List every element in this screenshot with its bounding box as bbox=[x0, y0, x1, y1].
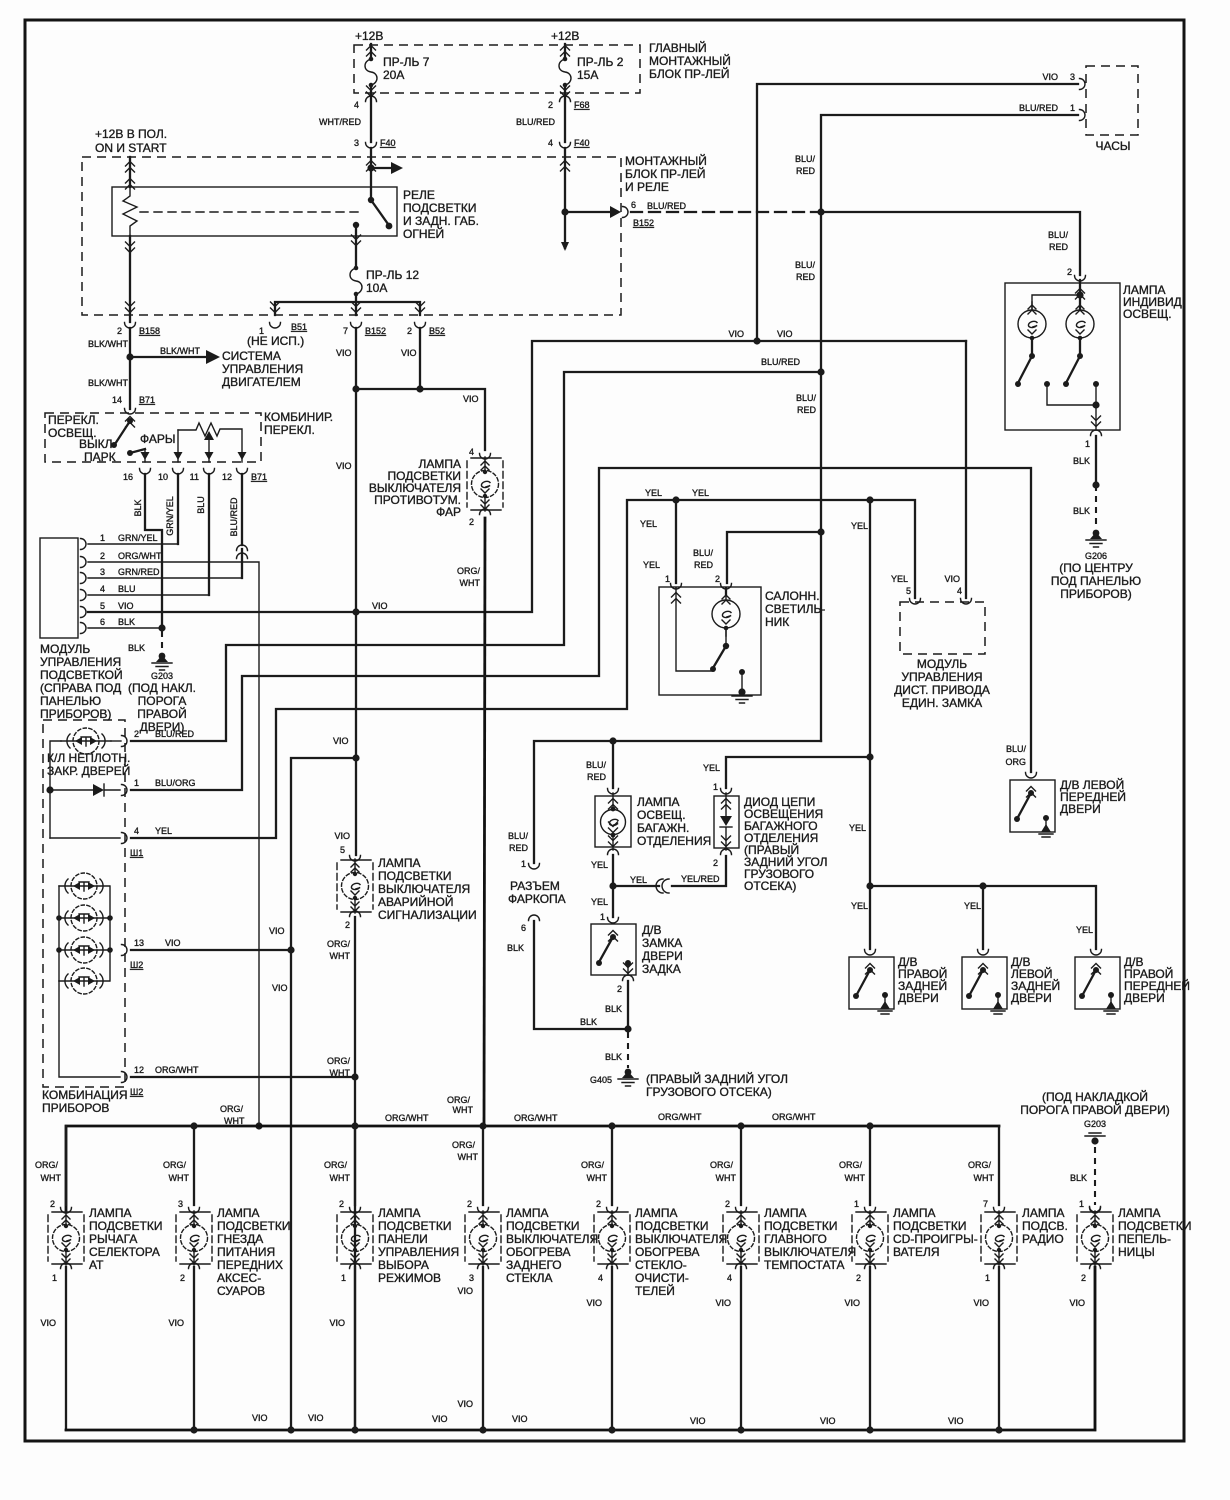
svg-text:ПЕРЕКЛ.: ПЕРЕКЛ. bbox=[264, 423, 315, 437]
svg-text:2: 2 bbox=[1067, 267, 1072, 277]
svg-text:3: 3 bbox=[100, 567, 105, 577]
svg-text:1: 1 bbox=[985, 1273, 990, 1283]
svg-text:ОБОГРЕВА: ОБОГРЕВА bbox=[506, 1245, 571, 1259]
svg-text:VIO: VIO bbox=[457, 1399, 473, 1409]
svg-text:WHT: WHT bbox=[330, 1068, 351, 1078]
svg-text:1: 1 bbox=[521, 859, 526, 869]
cluster pin 13 VIO bbox=[122, 945, 128, 956]
svg-text:1: 1 bbox=[134, 778, 139, 788]
svg-text:BLU/: BLU/ bbox=[796, 393, 817, 403]
svg-text:ЛАМПА: ЛАМПА bbox=[1118, 1206, 1161, 1220]
svg-text:2: 2 bbox=[117, 326, 122, 336]
trunk lamp box bbox=[595, 796, 631, 847]
svg-text:ПР-ЛЬ 7: ПР-ЛЬ 7 bbox=[383, 55, 430, 69]
svg-text:И ЗАДН. ГАБ.: И ЗАДН. ГАБ. bbox=[403, 214, 479, 228]
svg-text:ОТСЕКА): ОТСЕКА) bbox=[744, 879, 796, 893]
svg-text:АТ: АТ bbox=[89, 1258, 104, 1272]
svg-text:YEL: YEL bbox=[1076, 925, 1093, 935]
svg-text:BLU/: BLU/ bbox=[795, 260, 816, 270]
svg-text:WHT: WHT bbox=[458, 1152, 479, 1162]
svg-text:ЛАМПА: ЛАМПА bbox=[764, 1206, 807, 1220]
svg-text:1: 1 bbox=[854, 1199, 859, 1209]
svg-text:ОСВЕЩ.: ОСВЕЩ. bbox=[637, 808, 686, 822]
svg-text:САЛОНН.: САЛОНН. bbox=[765, 589, 820, 603]
pin 7 B152 bbox=[351, 323, 362, 329]
YEL door bus bbox=[866, 882, 873, 889]
svg-text:4: 4 bbox=[354, 100, 359, 110]
cluster pin 4 YEL bbox=[50, 837, 120, 839]
svg-text:КОМБИНАЦИЯ: КОМБИНАЦИЯ bbox=[42, 1088, 128, 1102]
svg-text:5: 5 bbox=[100, 601, 105, 611]
individual lamp bulb 2 switch bbox=[1079, 338, 1081, 356]
svg-text:BLU/RED: BLU/RED bbox=[761, 357, 801, 367]
svg-text:11: 11 bbox=[190, 472, 199, 482]
svg-text:ЗАДКА: ЗАДКА bbox=[642, 962, 681, 976]
svg-text:1: 1 bbox=[1085, 439, 1090, 449]
svg-text:ВЫКЛЮЧАТЕЛЯ: ВЫКЛЮЧАТЕЛЯ bbox=[378, 882, 470, 896]
svg-text:ВЫКЛЮЧАТЕЛЯ: ВЫКЛЮЧАТЕЛЯ bbox=[506, 1232, 598, 1246]
svg-text:ПРАВОЙ: ПРАВОЙ bbox=[137, 706, 186, 721]
svg-text:ORG/WHT: ORG/WHT bbox=[658, 1112, 702, 1122]
module pin 2 ORG/WHT bbox=[81, 557, 87, 568]
svg-text:B52: B52 bbox=[429, 326, 445, 336]
svg-text:BLU/RED: BLU/RED bbox=[155, 729, 195, 739]
svg-text:ПОДСВЕТКИ: ПОДСВЕТКИ bbox=[378, 869, 451, 883]
svg-text:УПРАВЛЕНИЯ: УПРАВЛЕНИЯ bbox=[378, 1245, 459, 1259]
wire YEL diode pin1 branch bbox=[726, 757, 870, 788]
cluster pin 1 BLU/ORG bbox=[122, 785, 128, 796]
svg-text:ЛАМПА: ЛАМПА bbox=[89, 1206, 132, 1220]
wire VIO down to lock module pin 4 bbox=[965, 341, 967, 598]
svg-text:6: 6 bbox=[521, 923, 526, 933]
svg-text:ВЫКЛЮЧАТЕЛЯ: ВЫКЛЮЧАТЕЛЯ bbox=[635, 1232, 727, 1246]
rear window defogger switch illumination lamp bbox=[482, 1126, 484, 1205]
wire BLK dashed to ground bbox=[161, 631, 163, 656]
svg-text:ПОДСВЕТКИ: ПОДСВЕТКИ bbox=[403, 201, 476, 215]
wire BLU/RED trunk lamp drop bbox=[612, 741, 614, 788]
left rear door switch bbox=[978, 950, 989, 956]
svg-text:VIO: VIO bbox=[333, 736, 349, 746]
svg-text:VIO: VIO bbox=[715, 1298, 731, 1308]
svg-text:WHT: WHT bbox=[460, 578, 481, 588]
pin 11 B71 bbox=[204, 469, 215, 475]
svg-text:YEL: YEL bbox=[155, 826, 172, 836]
svg-text:2: 2 bbox=[1081, 1273, 1086, 1283]
wire BLU/RED trunk feeder y741 bbox=[534, 741, 821, 863]
svg-text:ПОДСВЕТКОЙ: ПОДСВЕТКОЙ bbox=[40, 667, 123, 682]
svg-text:ORG/WHT: ORG/WHT bbox=[772, 1112, 816, 1122]
fuse ПР-ЛЬ 7 20А bbox=[365, 57, 377, 88]
svg-text:VIO: VIO bbox=[432, 1414, 448, 1424]
svg-text:7: 7 bbox=[983, 1199, 988, 1209]
svg-text:2: 2 bbox=[100, 551, 105, 561]
right rear door switch bbox=[865, 950, 876, 956]
svg-text:10: 10 bbox=[158, 472, 168, 482]
svg-text:ТЕЛЕЙ: ТЕЛЕЙ bbox=[635, 1283, 675, 1298]
svg-text:BLK: BLK bbox=[1070, 1173, 1087, 1183]
radio illumination lamp bbox=[998, 1126, 1000, 1205]
VIO junction bar to fog lamp bbox=[356, 389, 485, 450]
svg-text:ORG/: ORG/ bbox=[457, 566, 481, 576]
svg-text:РАЗЪЕМ: РАЗЪЕМ bbox=[510, 879, 560, 893]
svg-text:ПР-ЛЬ 12: ПР-ЛЬ 12 bbox=[366, 268, 419, 282]
cluster internal rail to pin 12 bbox=[59, 981, 120, 1077]
svg-text:ORG/: ORG/ bbox=[447, 1095, 471, 1105]
svg-text:ОТДЕЛЕНИЯ: ОТДЕЛЕНИЯ bbox=[637, 834, 711, 848]
svg-text:ДВЕРИ: ДВЕРИ bbox=[642, 949, 683, 963]
cluster internal diode bbox=[50, 789, 120, 791]
svg-text:YEL: YEL bbox=[643, 560, 660, 570]
svg-text:РАДИО: РАДИО bbox=[1022, 1232, 1064, 1246]
svg-text:ВЫБОРА: ВЫБОРА bbox=[378, 1258, 429, 1272]
cruise control main switch illumination lamp bbox=[740, 1126, 742, 1205]
svg-text:BLU/: BLU/ bbox=[693, 548, 714, 558]
svg-text:YEL: YEL bbox=[692, 488, 709, 498]
selector lever illumination lamp bbox=[65, 1126, 67, 1205]
svg-text:BLU/: BLU/ bbox=[795, 154, 816, 164]
svg-text:VIO: VIO bbox=[308, 1413, 324, 1423]
svg-text:WHT: WHT bbox=[330, 951, 351, 961]
svg-text:ON И START: ON И START bbox=[95, 141, 167, 155]
svg-text:ПРИБОРОВ): ПРИБОРОВ) bbox=[1060, 587, 1131, 601]
svg-text:WHT: WHT bbox=[845, 1173, 866, 1183]
svg-text:YEL: YEL bbox=[849, 823, 866, 833]
wire ORG/WHT hazard lamp down bbox=[354, 917, 356, 1430]
svg-text:G206: G206 bbox=[1085, 551, 1107, 561]
svg-text:VIO: VIO bbox=[463, 394, 479, 404]
svg-text:4: 4 bbox=[598, 1273, 603, 1283]
svg-text:1: 1 bbox=[341, 1273, 346, 1283]
svg-text:ПАНЕЛИ: ПАНЕЛИ bbox=[378, 1232, 428, 1246]
diode box bbox=[714, 796, 739, 848]
wire BLK dashed to G206 bbox=[1095, 485, 1097, 528]
svg-text:BLU/: BLU/ bbox=[586, 760, 607, 770]
VIO bottom bus bbox=[66, 1267, 1095, 1430]
pin 10 B71 bbox=[173, 469, 184, 475]
svg-text:VIO: VIO bbox=[944, 574, 960, 584]
svg-text:ORG/WHT: ORG/WHT bbox=[385, 1113, 429, 1123]
svg-text:VIO: VIO bbox=[1069, 1298, 1085, 1308]
pin 6 B152 BLU/RED output arrow bbox=[565, 211, 612, 213]
svg-text:ЗАКР. ДВЕРЕЙ: ЗАКР. ДВЕРЕЙ bbox=[47, 763, 130, 778]
svg-text:YEL: YEL bbox=[964, 901, 981, 911]
svg-text:BLU/ORG: BLU/ORG bbox=[155, 778, 196, 788]
svg-text:YEL: YEL bbox=[851, 901, 868, 911]
svg-text:YEL: YEL bbox=[703, 763, 720, 773]
svg-text:СТЕКЛО-: СТЕКЛО- bbox=[635, 1258, 687, 1272]
svg-text:(ПРАВЫЙ ЗАДНИЙ УГОЛ: (ПРАВЫЙ ЗАДНИЙ УГОЛ bbox=[646, 1071, 788, 1086]
ashtray illumination lamp bbox=[1094, 1147, 1096, 1205]
svg-text:7: 7 bbox=[343, 326, 348, 336]
dome lamp pin 2 bbox=[721, 584, 732, 590]
svg-text:BLU/RED: BLU/RED bbox=[229, 497, 239, 537]
wire VIO continues down x356 bbox=[355, 389, 357, 855]
tailgate lock switch box bbox=[591, 924, 636, 975]
dome lamp bulb bbox=[725, 588, 727, 594]
svg-text:2: 2 bbox=[345, 920, 350, 930]
svg-text:ORG/: ORG/ bbox=[968, 1160, 992, 1170]
svg-text:ORG/: ORG/ bbox=[220, 1104, 244, 1114]
svg-text:ОСВЕЩ.: ОСВЕЩ. bbox=[1123, 307, 1172, 321]
svg-text:YEL: YEL bbox=[591, 860, 608, 870]
CD player illumination lamp bbox=[869, 1126, 871, 1205]
svg-text:ORG/: ORG/ bbox=[327, 939, 351, 949]
individual lamp bulb 1 bbox=[1018, 302, 1046, 346]
lock module pin 4 bbox=[961, 599, 972, 605]
svg-text:НИЦЫ: НИЦЫ bbox=[1118, 1245, 1155, 1259]
svg-text:B158: B158 bbox=[139, 326, 160, 336]
cluster pin 12 ORG/WHT bbox=[122, 1072, 128, 1083]
svg-text:6: 6 bbox=[100, 617, 105, 627]
wire F40 pin3 down into block bbox=[370, 148, 372, 199]
svg-text:RED: RED bbox=[1049, 242, 1069, 252]
svg-text:VIO: VIO bbox=[334, 831, 350, 841]
svg-text:ПАРК: ПАРК bbox=[84, 450, 116, 464]
svg-text:ПЕРЕДНИХ: ПЕРЕДНИХ bbox=[217, 1258, 283, 1272]
svg-text:+12В: +12В bbox=[551, 29, 579, 43]
svg-text:МОНТАЖНЫЙ: МОНТАЖНЫЙ bbox=[649, 53, 731, 68]
svg-text:3: 3 bbox=[178, 1199, 183, 1209]
svg-text:ПОД ПАНЕЛЬЮ: ПОД ПАНЕЛЬЮ bbox=[1051, 574, 1141, 588]
svg-text:VIO: VIO bbox=[820, 1416, 836, 1426]
dome lamp pin 1 bbox=[671, 584, 682, 590]
svg-text:VIO: VIO bbox=[844, 1298, 860, 1308]
svg-text:VIO: VIO bbox=[165, 938, 181, 948]
svg-text:ДВЕРИ: ДВЕРИ bbox=[1124, 991, 1165, 1005]
svg-text:B71: B71 bbox=[139, 395, 155, 405]
svg-text:ЗАМКА: ЗАМКА bbox=[642, 936, 682, 950]
svg-text:ТЕМПОСТАТА: ТЕМПОСТАТА bbox=[764, 1258, 845, 1272]
svg-text:2: 2 bbox=[407, 326, 412, 336]
svg-text:4: 4 bbox=[100, 584, 105, 594]
wire BLK/WHT left branch to engine bbox=[129, 328, 131, 409]
wire ORG/WHT module pin2 vertical bbox=[255, 1122, 262, 1129]
svg-text:И РЕЛЕ: И РЕЛЕ bbox=[625, 180, 669, 194]
pin 1 B51 not used bbox=[270, 323, 281, 329]
svg-text:BLK: BLK bbox=[133, 499, 143, 516]
svg-text:ЛАМПА: ЛАМПА bbox=[378, 1206, 421, 1220]
svg-text:ПОДСВЕТКИ: ПОДСВЕТКИ bbox=[764, 1219, 837, 1233]
svg-text:10А: 10А bbox=[366, 281, 387, 295]
wire VIO from B52 pin2 bbox=[419, 328, 421, 389]
wire BLU/ORG long run bbox=[131, 468, 1031, 790]
headlight switch bbox=[126, 417, 135, 428]
module pin 4 BLU bbox=[81, 590, 87, 601]
svg-text:13: 13 bbox=[134, 938, 144, 948]
svg-text:VIO: VIO bbox=[372, 601, 388, 611]
svg-text:2: 2 bbox=[713, 858, 718, 868]
dome light YEL junctions bbox=[672, 496, 679, 503]
svg-text:GRN/RED: GRN/RED bbox=[118, 567, 160, 577]
svg-text:WHT: WHT bbox=[169, 1173, 190, 1183]
diode symbol bbox=[720, 816, 732, 826]
wire GRN/YEL pin10 bbox=[177, 474, 179, 544]
main fuse block dashed enclosure bbox=[354, 45, 640, 93]
svg-text:(ПОД НАКЛ.: (ПОД НАКЛ. bbox=[128, 681, 196, 695]
svg-text:VIO: VIO bbox=[118, 601, 134, 611]
right front door switch bbox=[1091, 950, 1102, 956]
svg-text:WHT: WHT bbox=[330, 1173, 351, 1183]
svg-text:СТЕКЛА: СТЕКЛА bbox=[506, 1271, 552, 1285]
pin 12 B71 bbox=[237, 469, 248, 475]
svg-text:BLU/: BLU/ bbox=[1006, 744, 1027, 754]
svg-text:YEL: YEL bbox=[640, 519, 657, 529]
svg-text:ФАРКОПА: ФАРКОПА bbox=[508, 892, 566, 906]
VIO junction at clock drop bbox=[753, 337, 760, 344]
svg-text:ЗАДНЕГО: ЗАДНЕГО bbox=[506, 1258, 562, 1272]
svg-text:4: 4 bbox=[469, 447, 474, 457]
svg-text:ГЛАВНЫЙ: ГЛАВНЫЙ bbox=[649, 40, 707, 55]
svg-text:RED: RED bbox=[796, 272, 816, 282]
svg-text:2: 2 bbox=[856, 1273, 861, 1283]
svg-text:BLU/RED: BLU/RED bbox=[647, 201, 687, 211]
svg-text:ORG: ORG bbox=[1005, 757, 1026, 767]
svg-text:BLK: BLK bbox=[1073, 456, 1090, 466]
svg-text:УПРАВЛЕНИЯ: УПРАВЛЕНИЯ bbox=[901, 670, 982, 684]
switch contact park-fary bbox=[127, 450, 133, 456]
svg-text:1: 1 bbox=[600, 912, 605, 922]
wire YEL/RED to diode pin 2 bbox=[672, 856, 726, 886]
wire YEL from cluster pin 4 bbox=[131, 500, 915, 838]
trailer connector pin 6 bbox=[529, 915, 540, 921]
module pin 3 GRN/RED bbox=[81, 573, 87, 584]
svg-text:BLK/WHT: BLK/WHT bbox=[160, 346, 201, 356]
svg-text:МОДУЛЬ: МОДУЛЬ bbox=[917, 657, 967, 671]
svg-text:ПЕПЕЛЬ-: ПЕПЕЛЬ- bbox=[1118, 1232, 1171, 1246]
svg-text:КОМБИНИР.: КОМБИНИР. bbox=[264, 410, 333, 424]
individual lamp fixed contacts bbox=[1044, 381, 1050, 387]
svg-text:B71: B71 bbox=[251, 472, 267, 482]
hazard switch illumination lamp bbox=[337, 856, 373, 917]
svg-text:BLK: BLK bbox=[605, 1052, 622, 1062]
svg-text:МОДУЛЬ: МОДУЛЬ bbox=[40, 642, 90, 656]
svg-text:BLK: BLK bbox=[605, 1004, 622, 1014]
svg-text:3: 3 bbox=[354, 138, 359, 148]
svg-text:ГРУЗОВОГО ОТСЕКА): ГРУЗОВОГО ОТСЕКА) bbox=[646, 1085, 772, 1099]
svg-text:ОБОГРЕВА: ОБОГРЕВА bbox=[635, 1245, 700, 1259]
svg-text:WHT/RED: WHT/RED bbox=[319, 117, 361, 127]
svg-text:ФАР: ФАР bbox=[436, 505, 461, 519]
svg-text:ORG/: ORG/ bbox=[327, 1056, 351, 1066]
junction block relay dashed enclosure bbox=[82, 157, 621, 315]
svg-text:F40: F40 bbox=[574, 138, 590, 148]
individual lamp pin 1 BLK bbox=[1091, 430, 1102, 436]
cluster illumination lamps bbox=[58, 886, 60, 981]
svg-text:YEL: YEL bbox=[591, 897, 608, 907]
relay output terminal bbox=[353, 222, 359, 228]
svg-text:ПОРОГА: ПОРОГА bbox=[138, 694, 187, 708]
svg-text:BLU/: BLU/ bbox=[508, 831, 529, 841]
wire BLU/RED branch y372 bbox=[131, 372, 821, 741]
svg-text:VIO: VIO bbox=[336, 461, 352, 471]
svg-text:ЛАМПА: ЛАМПА bbox=[217, 1206, 260, 1220]
svg-text:BLU/: BLU/ bbox=[1048, 230, 1069, 240]
svg-text:СВЕТИЛЬ-: СВЕТИЛЬ- bbox=[765, 602, 825, 616]
svg-text:BLU/RED: BLU/RED bbox=[1019, 103, 1059, 113]
svg-text:ОЧИСТИ-: ОЧИСТИ- bbox=[635, 1271, 689, 1285]
svg-text:VIO: VIO bbox=[973, 1298, 989, 1308]
svg-text:2: 2 bbox=[339, 1199, 344, 1209]
svg-text:МОНТАЖНЫЙ: МОНТАЖНЫЙ bbox=[625, 153, 707, 168]
svg-text:ДВЕРИ: ДВЕРИ bbox=[1011, 991, 1052, 1005]
wire BLU/RED branch to dome pin2 bbox=[727, 532, 821, 583]
svg-text:ПИТАНИЯ: ПИТАНИЯ bbox=[217, 1245, 275, 1259]
wire WHT/RED fuse7 to F40 pin3 bbox=[370, 85, 372, 142]
svg-text:2: 2 bbox=[180, 1273, 185, 1283]
svg-text:1: 1 bbox=[713, 782, 718, 792]
svg-text:ЛАМПА: ЛАМПА bbox=[635, 1206, 678, 1220]
svg-text:РЕЛЕ: РЕЛЕ bbox=[403, 188, 435, 202]
svg-text:RED: RED bbox=[509, 843, 529, 853]
svg-text:VIO: VIO bbox=[690, 1416, 706, 1426]
svg-text:ЛАМПА: ЛАМПА bbox=[506, 1206, 549, 1220]
svg-text:БАГАЖН.: БАГАЖН. bbox=[637, 821, 689, 835]
svg-text:12: 12 bbox=[222, 472, 232, 482]
svg-text:(ПО ЦЕНТРУ: (ПО ЦЕНТРУ bbox=[1059, 561, 1133, 575]
wire YEL to inline connector bbox=[613, 885, 659, 887]
svg-text:СЕЛЕКТОРА: СЕЛЕКТОРА bbox=[89, 1245, 160, 1259]
dome lamp ground contact bbox=[739, 669, 745, 675]
cluster pin 2 BLU/RED bbox=[122, 736, 128, 747]
wire ignition feed below relay bbox=[129, 236, 131, 322]
wire ORG/WHT fog lamp down bbox=[484, 518, 485, 1126]
VIO branch to x291 bbox=[352, 754, 359, 761]
svg-text:ПОДСВЕТКИ: ПОДСВЕТКИ bbox=[893, 1219, 966, 1233]
combination switch dashed enclosure bbox=[45, 413, 261, 462]
svg-text:4: 4 bbox=[957, 586, 962, 596]
lighting control module box bbox=[40, 538, 78, 638]
svg-text:WHT: WHT bbox=[453, 1105, 474, 1115]
svg-text:YEL: YEL bbox=[891, 574, 908, 584]
svg-text:VIO: VIO bbox=[168, 1318, 184, 1328]
wire BLU/RED dashed from pin6 B152 bbox=[631, 211, 821, 213]
svg-text:GRN/YEL: GRN/YEL bbox=[118, 533, 158, 543]
svg-text:ПОДСВЕТКИ: ПОДСВЕТКИ bbox=[378, 1219, 451, 1233]
svg-text:ORG/: ORG/ bbox=[710, 1160, 734, 1170]
svg-text:ORG/WHT: ORG/WHT bbox=[514, 1113, 558, 1123]
wire YEL trunk lamp to junction bbox=[612, 855, 614, 886]
svg-text:УПРАВЛЕНИЯ: УПРАВЛЕНИЯ bbox=[40, 655, 121, 669]
relay internal dashed link bbox=[140, 211, 360, 213]
svg-text:WHT: WHT bbox=[41, 1173, 62, 1183]
svg-text:F68: F68 bbox=[574, 100, 590, 110]
wire BLU/RED pin12 bbox=[241, 474, 243, 578]
svg-text:(ПОД НАКЛАДКОЙ: (ПОД НАКЛАДКОЙ bbox=[1042, 1089, 1148, 1104]
svg-text:ПОДСВЕТКИ: ПОДСВЕТКИ bbox=[217, 1219, 290, 1233]
svg-text:ЕДИН. ЗАМКА: ЕДИН. ЗАМКА bbox=[902, 696, 982, 710]
lock module pin 5 bbox=[910, 599, 921, 605]
svg-text:3: 3 bbox=[469, 1273, 474, 1283]
ground G206 bbox=[1086, 530, 1106, 547]
svg-text:G405: G405 bbox=[590, 1075, 612, 1085]
svg-text:6: 6 bbox=[631, 200, 636, 210]
svg-text:ПОДСВЕТКИ: ПОДСВЕТКИ bbox=[506, 1219, 579, 1233]
svg-text:ORG/: ORG/ bbox=[452, 1140, 476, 1150]
module pin 1 GRN/YEL bbox=[81, 539, 87, 550]
svg-text:ФАРЫ: ФАРЫ bbox=[140, 432, 176, 446]
main ORG/WHT bus bbox=[66, 1126, 999, 1210]
wire F40 pin4 down into block bbox=[564, 148, 566, 248]
fuse ПР-ЛЬ 2 15А bbox=[559, 57, 571, 88]
junction arrow right bbox=[367, 164, 374, 171]
svg-text:VIO: VIO bbox=[336, 348, 352, 358]
ground G203 module bbox=[152, 653, 172, 670]
front accessory socket illumination lamp bbox=[193, 1126, 195, 1205]
svg-text:VIO: VIO bbox=[777, 329, 793, 339]
individual lamp bulb 1 switch bbox=[1031, 338, 1033, 356]
svg-text:WHT: WHT bbox=[224, 1116, 245, 1126]
svg-text:ДВЕРИ: ДВЕРИ bbox=[1060, 802, 1101, 816]
